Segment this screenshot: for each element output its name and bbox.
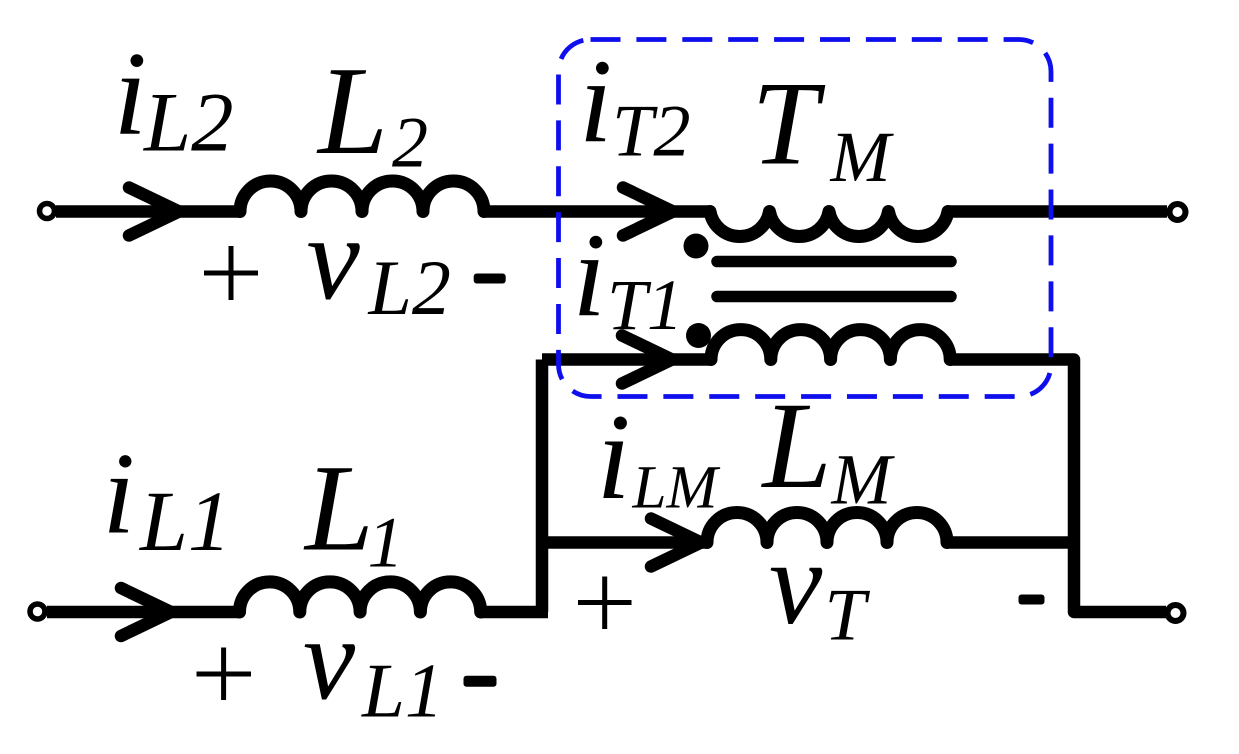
svg-text:T: T — [752, 57, 826, 190]
svg-text:T1: T1 — [607, 265, 683, 345]
svg-text:LM: LM — [632, 454, 721, 522]
svg-text:M: M — [831, 440, 896, 520]
svg-text:i: i — [597, 388, 631, 525]
svg-text:L1: L1 — [138, 473, 231, 569]
svg-text:v: v — [307, 192, 361, 325]
svg-text:2: 2 — [392, 103, 428, 183]
svg-text:i: i — [103, 430, 136, 559]
svg-text:L: L — [316, 42, 388, 181]
svg-text:1: 1 — [368, 503, 404, 583]
svg-text:i: i — [114, 27, 147, 160]
svg-text:L2: L2 — [368, 244, 451, 331]
svg-text:T2: T2 — [612, 91, 690, 173]
svg-text:i: i — [579, 34, 612, 167]
svg-text:L: L — [303, 440, 374, 577]
svg-text:v: v — [303, 595, 356, 725]
svg-text:L: L — [761, 376, 832, 514]
svg-text:M: M — [830, 117, 895, 197]
svg-text:i: i — [573, 208, 606, 341]
svg-text:L2: L2 — [143, 76, 234, 170]
svg-text:L1: L1 — [361, 648, 443, 734]
svg-text:v: v — [769, 516, 823, 649]
svg-text:T: T — [825, 575, 871, 657]
